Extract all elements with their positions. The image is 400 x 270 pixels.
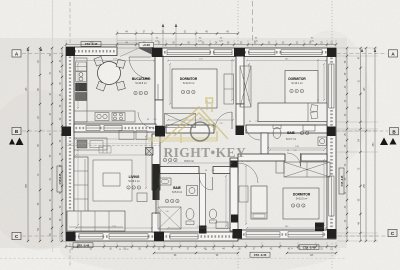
section marker triangles left [9, 138, 24, 146]
column bath A divider base [199, 226, 207, 234]
bottom dimension chain line 1 [66, 246, 336, 248]
grid bubble C right [388, 229, 397, 236]
dormitor A door arc [215, 112, 232, 129]
left datum arrows [27, 48, 30, 52]
right dimension chain x376 [374, 48, 376, 241]
bath B toilet [273, 128, 281, 139]
level label CTA -0.45 bottom right [299, 245, 319, 250]
level label CTA -0.45 bottom left [73, 243, 93, 248]
dormitor C door arc [238, 163, 258, 183]
bath A shower [158, 207, 181, 229]
top datum arrows [162, 24, 164, 47]
wall interior V2 dormitorA/dormitorB [236, 56, 244, 104]
wall exterior top-left terrace [66, 47, 117, 56]
wall V4 dark segment [153, 164, 160, 200]
column C bath [233, 229, 243, 239]
right dimension chain x366 [365, 48, 367, 241]
column B3 right [327, 127, 336, 137]
left dimension chain x28 [27, 48, 29, 241]
top extension lines [65, 40, 67, 48]
dormitor C desk [239, 186, 248, 202]
wall interior V1 kitchen/dormitorA [155, 56, 163, 100]
grid bubble A right [389, 50, 398, 57]
window top dormitor A [214, 50, 232, 55]
column grid A1 [66, 47, 75, 56]
dormitor C dresser [276, 161, 284, 173]
window bottom dormitor C 2 [288, 232, 323, 237]
window H1 kitchen-living 2 [104, 126, 122, 131]
column bath A corner [231, 161, 238, 168]
terrace outline bottom-left outside [60, 241, 66, 243]
grid axis 3 vertical dotted x332 [331, 1, 333, 46]
kitchen fridge [76, 83, 87, 91]
dormitor B pillows [311, 105, 318, 112]
window top dormitor B segment 2 [281, 50, 322, 55]
window top kitchen [167, 50, 210, 55]
column B V1 [155, 126, 165, 137]
wall exterior left [66, 55, 74, 233]
top dimension chain line 2 [117, 33, 238, 35]
kitchen chair SW [96, 81, 106, 91]
column B V2 [236, 126, 245, 136]
window bottom living 2 [109, 234, 148, 239]
door leaf kitchen [157, 84, 159, 100]
grid axis 1 vertical dashed [69, 2, 71, 45]
living sofa bottom [67, 211, 125, 231]
living sofa left arm [74, 157, 88, 213]
interior dimension marks [76, 60, 154, 62]
kitchen sink [95, 113, 109, 121]
living tv bench [74, 138, 107, 150]
dormitor B bed [258, 103, 327, 122]
kitchen chair NE [116, 59, 125, 68]
scan sheet panel [0, 38, 347, 248]
column entrance [152, 48, 163, 57]
watermark underline bar [148, 137, 217, 142]
bath B washing machine [318, 137, 327, 146]
bath B door arc [287, 153, 301, 167]
grid axis dashed x252 [252, 1, 254, 46]
dormitor A low wardrobe X [165, 114, 196, 128]
watermark key ring circle [191, 122, 210, 141]
grid bubble B left [12, 127, 21, 134]
bath A toilet [186, 209, 194, 220]
window top dormitor B segment 1 [249, 50, 275, 55]
hall interior dimension [76, 138, 150, 140]
level label CTA -0.45 bottom center [250, 252, 270, 257]
wall exterior bottom [66, 232, 238, 241]
dormitor A rug [172, 69, 217, 108]
wall exterior top main [152, 48, 336, 57]
grid bubble B right [390, 128, 399, 135]
column C1 [66, 232, 76, 241]
wall interior V6 dormitorC left [230, 158, 238, 231]
kitchen door arc hall [138, 112, 154, 128]
column grid A2 [234, 48, 245, 57]
level label CTA -0.45 top left [81, 42, 101, 47]
porch edge at entrance [117, 43, 152, 48]
kitchen oven [76, 93, 87, 101]
living rug [93, 160, 132, 201]
kitchen table [98, 62, 121, 85]
window H1 kitchen-living 1 [86, 126, 100, 131]
top dimension chain line 1 [66, 44, 336, 46]
left dimension chain x62 [61, 48, 63, 241]
level label +0.00 [139, 43, 154, 48]
entrance door arc [129, 57, 151, 79]
kitchen hob [112, 113, 125, 121]
level label CTA right rotated [339, 168, 344, 194]
left dimension chain x52 [51, 48, 53, 241]
scan noise overlay [0, 0, 1, 1]
bath A door arc [200, 177, 213, 190]
grid row A dashed line [22, 53, 65, 55]
window bottom living 1 [79, 234, 103, 239]
building interior background [74, 56, 327, 233]
wc toilet [209, 209, 216, 219]
grid bubble A left [12, 50, 21, 57]
right dimension chain x347 [346, 48, 348, 241]
dormitor C wardrobe X row [284, 162, 330, 177]
grid axis 2 vertical dotted [237, 1, 239, 44]
dormitor A wardrobe right [224, 74, 234, 104]
column C3 right [327, 229, 337, 239]
right extension lines [337, 47, 378, 49]
bath A sink [159, 178, 171, 185]
scanner streak [52, 0, 54, 252]
column C living [154, 232, 164, 242]
wall interior V4 living/hall [152, 134, 160, 190]
kitchen chair SE [116, 81, 125, 90]
wall interior V5 bath divider [200, 174, 206, 227]
kitchen chair NW [94, 56, 104, 66]
dormitor B wardrobe X tall [240, 66, 251, 107]
bottom extension lines [65, 242, 67, 249]
living step marks [99, 146, 111, 153]
column dormitorC bottom [315, 223, 324, 232]
wall interior H2 bath B bottom [238, 154, 285, 161]
kitchen counter left [74, 58, 87, 122]
window bottom baie [170, 234, 198, 239]
column bath A lower [231, 215, 238, 223]
dormitor C bed [251, 186, 267, 219]
hall dashed ceiling line [66, 145, 160, 147]
right dimension chain x358 [360, 48, 362, 241]
living coffee table [103, 173, 120, 186]
entrance hatch wedge [138, 48, 157, 57]
kitchen cabinet [76, 62, 87, 71]
bath B sink [303, 125, 315, 131]
window right dormitor C [329, 176, 334, 216]
sliding door living [155, 190, 157, 214]
wc sink [216, 222, 228, 229]
wall interior bath A top [160, 167, 199, 174]
grid row B dashed line [22, 130, 61, 132]
bath A washer [187, 186, 198, 196]
left dimension chain x40 [39, 48, 41, 241]
bottom dimension chain line 2 [154, 252, 238, 254]
kitchen counter bottom [74, 111, 135, 122]
living lamp table [137, 193, 147, 202]
kitchen left sink [76, 72, 87, 82]
dormitor B rug [285, 71, 318, 104]
wall exterior right [327, 56, 336, 230]
dormitor B door arc [246, 126, 260, 140]
column grid A3 [327, 48, 337, 57]
grid row C dashed line [22, 235, 65, 237]
window right dormitor B [329, 64, 334, 108]
hall closet near entrance [119, 131, 134, 140]
shaft box X [146, 148, 154, 156]
right datum arrows [361, 49, 364, 53]
wall interior H1 hall top [74, 124, 156, 132]
wall interior bath B left [261, 133, 268, 154]
window bottom dormitor C 1 [246, 232, 280, 237]
dormitor C rug [283, 188, 319, 219]
section marker triangles right [380, 138, 397, 146]
grid bubble C left [12, 232, 21, 239]
level label CTA left rotated [57, 166, 62, 192]
watermark rightkey house [161, 98, 228, 143]
column B1 left pilaster [62, 127, 72, 137]
bottom faint rule [0, 257, 346, 259]
